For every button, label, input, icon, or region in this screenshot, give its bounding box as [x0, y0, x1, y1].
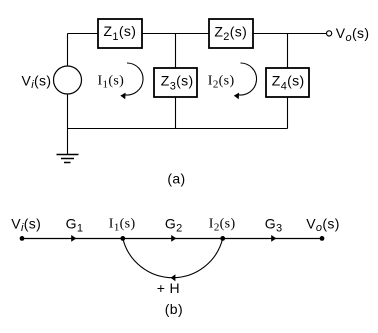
impedance Z1: [98, 19, 142, 48]
svg-text:I2(s): I2(s): [209, 216, 236, 233]
wire top-left vertical from source to top rail: [67, 34, 69, 67]
branch arrow G2: [171, 235, 176, 242]
svg-text:(a): (a): [167, 171, 185, 187]
svg-text:(b): (b): [165, 301, 183, 317]
wire bottom rail: [68, 128, 288, 130]
branch arrow G1: [71, 235, 76, 242]
mesh current I1 arc: [120, 63, 143, 99]
svg-text:G3: G3: [265, 215, 283, 234]
svg-text:I2(s): I2(s): [208, 74, 235, 91]
svg-text:G1: G1: [66, 215, 84, 234]
node Vi(s): [20, 236, 25, 241]
node I1(s): [120, 236, 125, 241]
node I2(s): [220, 236, 225, 241]
node Vo(s): [320, 236, 325, 241]
wire drop from top rail to Z4: [287, 34, 289, 69]
mesh current I2 arc: [234, 63, 257, 99]
branch arrow G3: [271, 235, 276, 242]
svg-text:Vi(s): Vi(s): [11, 215, 41, 234]
wire top rail from source corner to Z1: [68, 33, 99, 35]
source V_i(s): [54, 66, 82, 94]
svg-text:Vi(s): Vi(s): [22, 73, 52, 92]
wire below Z4 to bottom rail: [287, 97, 289, 129]
feedback branch arc +H: [123, 238, 223, 281]
svg-text:I1(s): I1(s): [109, 216, 136, 233]
impedance Z3: [154, 68, 197, 97]
ground: [57, 155, 79, 163]
wire below Z3 to bottom rail: [175, 97, 177, 129]
wire below source to bottom rail: [67, 94, 69, 129]
wire between Z1 and Z2: [142, 33, 210, 35]
svg-text:Vo(s): Vo(s): [336, 25, 370, 44]
wire from Z2 to output terminal: [253, 33, 327, 35]
wire ground stem: [67, 129, 69, 155]
signal flow graph main line: [22, 238, 322, 240]
output terminal node Vo: [327, 31, 332, 36]
svg-text:Vo(s): Vo(s): [306, 215, 340, 234]
impedance Z2: [209, 19, 253, 48]
wire drop from top rail to Z3: [175, 34, 177, 69]
impedance Z4: [266, 68, 309, 97]
svg-text:+ H: + H: [157, 280, 180, 296]
svg-text:I1(s): I1(s): [98, 74, 125, 91]
svg-text:G2: G2: [165, 215, 183, 234]
